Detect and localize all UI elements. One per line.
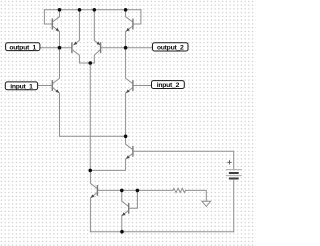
node: bottom rail junction	[120, 230, 124, 234]
transistor Q1 (top-left diode-connected NPN)	[44, 10, 59, 48]
wire: PNP collectors join	[79, 62, 94, 64]
node: rail junction 4	[124, 8, 128, 12]
svg-text:output_1: output_1	[9, 44, 36, 51]
node: output_2 junction	[124, 46, 128, 50]
node: rail junction 2	[78, 8, 82, 12]
node: mirror link junction	[88, 169, 92, 173]
node: PNP collector junction	[88, 61, 92, 65]
node: Q9 collector junction	[120, 189, 124, 193]
node input_1 label	[5, 82, 37, 91]
battery V1	[226, 151, 241, 231]
wire: resistor to ground	[186, 190, 207, 201]
node: rail junction 1	[58, 8, 62, 12]
node: Q9 base junction	[136, 189, 140, 193]
wire: mirror feed vertical	[89, 63, 91, 170]
svg-text:input_2: input_2	[157, 82, 180, 89]
svg-text:output_2: output_2	[157, 45, 184, 52]
ground	[202, 201, 211, 206]
junction dots	[58, 8, 140, 234]
wire: Q6 base to output_2	[101, 47, 152, 49]
transistor Q8 (mirror output NPN, mirrored)	[90, 170, 97, 231]
transistor Q6 (right PNP of middle pair, mirrored)	[94, 10, 100, 63]
wire: emitter tail row	[60, 135, 126, 137]
wire: Q7 base to battery	[133, 150, 233, 152]
transistor Q5 (input_2 NPN, mirrored)	[126, 48, 152, 137]
transistor Q4 (top-right diode-connected NPN, mirrored)	[126, 10, 141, 48]
transistor Q3 (left PNP of middle pair)	[72, 10, 80, 63]
wire: output_1 row	[40, 47, 72, 49]
node input_2 label	[152, 81, 185, 90]
node output_2 label	[153, 43, 189, 52]
svg-text:input_1: input_1	[10, 83, 33, 90]
node: output_1 junction	[58, 46, 62, 50]
transistor Q2 (input_1 NPN)	[38, 48, 60, 137]
wire: Q8 base row	[98, 189, 173, 191]
node: rail junction 3	[93, 8, 97, 12]
resistor R1	[173, 188, 186, 192]
transistor Q9 (diode-connected NPN, mirrored)	[122, 190, 138, 231]
transistor Q7 (cascode NPN, mirrored)	[90, 136, 133, 170]
node: tail junction	[124, 135, 128, 139]
wire: top supply rail	[44, 9, 140, 11]
node output_1 label	[6, 43, 40, 52]
wire: bottom rail	[90, 231, 233, 233]
